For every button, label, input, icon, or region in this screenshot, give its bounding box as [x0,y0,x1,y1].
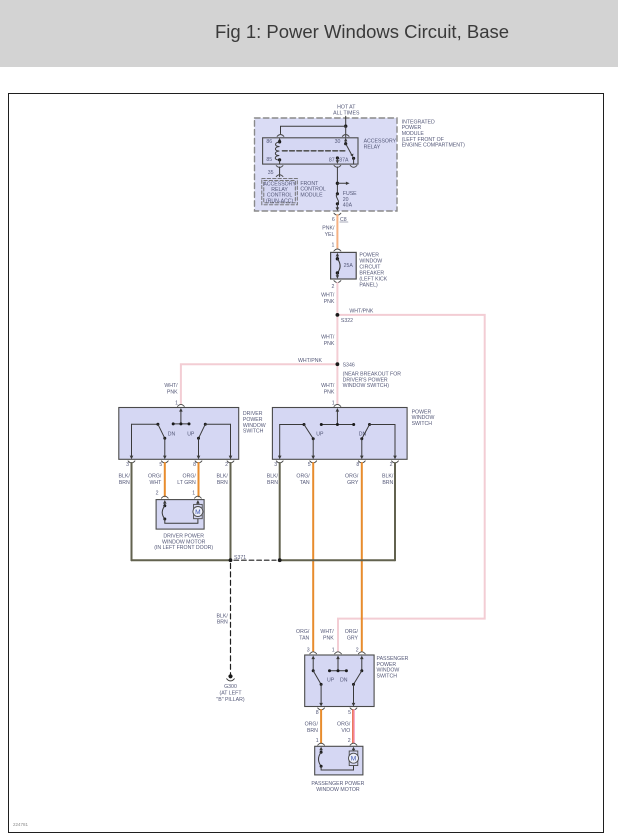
svg-text:PNK/: PNK/ [322,226,335,232]
driver switch left throw wire (pin 3) [132,423,158,425]
svg-text:2: 2 [156,490,159,496]
junction dot at pws pin3 wire [278,558,282,562]
arrow into pin 30 [344,138,347,141]
passenger power window switch box [305,655,374,707]
breaker internal: arrow up, curve, arrow down [336,253,339,257]
svg-text:WHT/: WHT/ [320,629,334,635]
driver switch common bar [173,423,189,425]
svg-text:TAN: TAN [299,636,309,642]
svg-text:BRN: BRN [217,480,228,486]
connector at power window switch pin 1 [334,404,341,406]
svg-text:ORG/: ORG/ [183,474,197,480]
svg-text:1: 1 [192,490,195,496]
svg-text:DN: DN [168,431,176,437]
svg-text:5: 5 [159,462,162,468]
svg-text:LT GRN: LT GRN [177,480,196,486]
svg-text:3: 3 [307,647,310,653]
svg-text:8: 8 [193,462,196,468]
pass switch pin3 arrow and UP blade [311,656,315,660]
arrow into pin 86 [278,138,281,141]
svg-text:MODULE: MODULE [300,192,323,198]
wire ORG/VIO pass pin5 to motor pin2 [352,710,354,743]
svg-text:6: 6 [332,217,335,223]
pass switch pin1 feed and common bar [336,656,340,660]
power window circuit breaker box [331,252,357,279]
svg-text:BLK/: BLK/ [217,474,229,480]
connector at breaker pin 2 [334,281,341,283]
connectors under passenger switch pins 8 5 [318,708,325,710]
svg-text:2: 2 [332,284,335,290]
splice S322 [336,313,340,317]
wire into relay pin 30 [345,126,347,137]
svg-text:TAN: TAN [300,480,310,486]
svg-text:35: 35 [268,170,274,176]
svg-text:S322: S322 [341,318,353,324]
wire fuse to IPM edge with arrow [336,204,338,208]
svg-text:UP: UP [187,431,195,437]
svg-text:ORG/: ORG/ [345,474,359,480]
driver switch right throw wire (pin 2) [205,423,230,425]
passenger power window motor box [315,746,363,775]
svg-text:WINDOW MOTOR: WINDOW MOTOR [316,787,360,793]
wire BLK/BRN driver pin2 to ground bus [230,463,232,560]
svg-text:ENGINE COMPARTMENT): ENGINE COMPARTMENT) [402,143,465,149]
svg-text:86: 86 [266,139,272,145]
ground bus solid left segment [132,559,231,561]
svg-text:S346: S346 [343,363,355,369]
svg-text:BLK/: BLK/ [119,474,131,480]
svg-text:PNK: PNK [323,636,334,642]
svg-text:UP: UP [327,678,335,684]
svg-text:2: 2 [348,738,351,744]
svg-text:YEL: YEL [325,232,335,238]
motor M symbol [196,500,200,504]
svg-text:GRY: GRY [347,480,359,486]
SEC4 [296,629,409,793]
driver power window motor box [156,500,204,529]
svg-text:SWITCH: SWITCH [243,429,264,435]
driver switch DN blade [156,423,159,426]
svg-text:8: 8 [356,462,359,468]
svg-text:ORG/: ORG/ [337,721,351,727]
svg-text:WHT/PNK: WHT/PNK [349,309,373,315]
svg-text:WINDOW SWITCH): WINDOW SWITCH) [343,383,390,389]
wire PNK/YEL from C8 to circuit breaker [336,215,338,248]
front control module dashed box (outer) [262,178,298,204]
wire ORG/TAN pws pin5 to passenger switch pin3 [312,463,314,651]
svg-text:BLK/: BLK/ [382,474,394,480]
relay 87 contact and wire down [336,156,339,159]
svg-text:2: 2 [356,647,359,653]
wire ORG/BRN pass pin8 to motor pin1 [320,710,322,743]
svg-text:WHT/: WHT/ [164,383,178,389]
wire junction to pin 86 [344,125,347,128]
mechanical link (dashed) coil to blade [283,150,347,152]
pass motor internal left arc branch [319,747,323,751]
connector under pin 87 [334,165,341,167]
SEC1 [164,215,484,651]
svg-text:PANEL): PANEL) [359,283,378,289]
motor internal left arc branch [163,500,167,504]
relay 87A contact [352,157,355,160]
svg-text:BRN: BRN [119,480,130,486]
splice S371 [229,558,233,562]
wire BLK/BRN driver pin3 to ground bus [131,463,133,560]
svg-text:DN: DN [340,678,348,684]
wire WHT/PNK from S346 to driver switch [181,364,338,404]
pass switch pin2 arrow and DN blade [360,656,364,660]
svg-text:PNK: PNK [167,390,178,396]
svg-text:87A: 87A [339,158,349,164]
svg-text:M: M [195,509,201,516]
svg-text:1: 1 [332,647,335,653]
SEC3 [132,408,435,703]
connectors at driver motor pins [161,496,168,498]
connector 6 / C8 below IPM [334,213,341,215]
svg-text:30: 30 [335,139,341,145]
svg-text:PNK: PNK [324,341,335,347]
svg-text:ORG/: ORG/ [345,629,359,635]
svg-text:224781: 224781 [13,822,29,827]
wire BLK/BRN pws pin2 to ground bus [394,463,396,560]
svg-text:BRN: BRN [382,480,393,486]
svg-text:8: 8 [316,710,319,716]
pws UP blade [303,423,306,426]
wire BLK/BRN pws pin3 to ground bus [279,463,281,560]
wire segment 85 to FCM pin 35 [279,167,281,177]
wire from HOT AT ALL TIMES down [345,116,347,126]
SEC2 [119,408,266,561]
svg-text:ORG/: ORG/ [148,474,162,480]
svg-text:BRN: BRN [307,728,318,734]
wire 87 down to fuse [336,167,338,194]
driver switch pin1 feed arrow [179,408,183,412]
pass motor M symbol [352,747,356,751]
junction with branch arrow [336,182,339,185]
connector at FCM pin 35 [276,175,283,177]
connector at relay pin 30 [342,135,349,137]
connectors at passenger motor pins [318,743,325,745]
svg-text:5: 5 [308,462,311,468]
header band [0,0,618,67]
wire ORG/WHT driver pin5 to motor [164,463,166,496]
svg-text:(IN LEFT FRONT DOOR): (IN LEFT FRONT DOOR) [154,545,213,551]
svg-text:ALL TIMES: ALL TIMES [333,110,360,116]
ground G300 [228,674,232,678]
svg-text:3: 3 [126,462,129,468]
svg-text:RELAY: RELAY [364,145,381,151]
svg-text:WHT: WHT [149,480,162,486]
svg-text:BRN: BRN [267,480,278,486]
svg-text:2: 2 [225,462,228,468]
svg-text:3: 3 [274,462,277,468]
wire pin 85 down to FCM [279,160,281,164]
svg-text:25A: 25A [344,263,354,269]
svg-text:WHT/: WHT/ [321,383,335,389]
svg-text:S371: S371 [234,555,246,561]
svg-text:1: 1 [316,738,319,744]
wire ORG/LT GRN driver pin8 to motor [198,463,200,496]
svg-text:PNK: PNK [324,390,335,396]
connector under 87A [350,165,357,167]
svg-text:BREAKER: BREAKER [359,270,384,276]
svg-text:BRN: BRN [217,620,228,626]
connector at breaker pin 1 [334,249,341,251]
accessory relay box [263,138,358,164]
splice S346 [336,362,340,366]
connectors at passenger switch pins 3 1 2 [310,652,317,654]
svg-text:G300: G300 [224,684,237,690]
svg-text:85: 85 [266,157,272,163]
dashed BLK/BRN drop to G300 [230,564,232,675]
svg-text:PNK: PNK [324,299,335,305]
svg-text:SWITCH: SWITCH [377,674,398,680]
relay coil between 86 and 85 [278,140,281,143]
wire WHT/PNK breaker to S322 to S346 to power window switch [336,283,338,404]
svg-text:WHT/: WHT/ [321,293,335,299]
connector at driver switch pin 1 [178,404,185,406]
svg-text:BLK/: BLK/ [267,474,279,480]
svg-text:WHT/: WHT/ [321,334,335,340]
accessory relay control dashed box (inner) [264,180,296,202]
power window switch box [272,408,407,460]
relay switch blade 30 to 87A [344,142,347,145]
ground bus solid right segment [280,559,395,561]
wire ORG/GRY pws pin8 to passenger switch pin2 [361,463,363,651]
fuse 20 40A [336,192,339,195]
svg-text:"B" PILLAR): "B" PILLAR) [216,697,244,703]
connectors under pws pins 3 5 8 2 [276,461,283,463]
pws DN blade [368,423,371,426]
pws right throw wire (pin 2) [370,424,396,426]
wire WHT/PNK from S322 to right side and down to passenger switch [337,315,484,651]
svg-text:87: 87 [329,158,335,164]
svg-text:SWITCH: SWITCH [412,421,433,427]
wire to relay pin 86 [281,126,346,133]
pws common bar [321,424,353,426]
integrated power module box (dashed) [255,118,398,211]
svg-text:40A: 40A [343,203,353,209]
svg-text:GRY: GRY [347,636,359,642]
svg-text:(AT LEFT: (AT LEFT [219,690,242,696]
driver switch UP blade [204,423,207,426]
svg-text:2: 2 [390,462,393,468]
pws pin1 feed arrow [336,408,340,412]
svg-text:1: 1 [332,243,335,249]
svg-text:UP: UP [316,431,324,437]
svg-text:ORG/: ORG/ [305,721,319,727]
svg-text:VIO: VIO [341,728,350,734]
pws left throw wire (pin 3) [280,424,304,426]
connectors under driver switch pins 3 5 8 2 [128,461,135,463]
connector at relay pin 86 [277,135,284,137]
ground bus dashed segment [234,559,276,561]
svg-text:(RUN-ACC): (RUN-ACC) [266,198,294,204]
driver power window switch box [119,408,239,460]
svg-text:M: M [351,756,357,763]
svg-text:ORG/: ORG/ [296,629,310,635]
connector under pin 85 [276,166,283,168]
svg-text:WHT/PNK: WHT/PNK [298,358,322,364]
svg-text:5: 5 [348,710,351,716]
svg-text:ORG/: ORG/ [296,474,310,480]
